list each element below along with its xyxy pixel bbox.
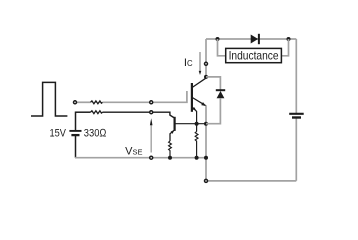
- right rail gray lower: [295, 118, 297, 181]
- collector rail gray: [205, 39, 207, 77]
- battery right long plate: [289, 113, 304, 115]
- transistor Q1 collector lead: [192, 78, 206, 87]
- diode D1 cathode bar: [258, 34, 260, 44]
- transistor Q1 emitter lead short: [192, 107, 196, 132]
- junction dot emitter rail: [204, 156, 208, 160]
- resistor RB2: [91, 111, 103, 114]
- node terminal circle input: [74, 101, 77, 104]
- Ic arrowhead: [199, 71, 202, 75]
- inductance box right connector: [281, 39, 288, 56]
- freewheel diode branch bottom wire gray: [206, 98, 220, 124]
- freewheel diode branch top wire gray: [206, 77, 220, 90]
- transistor Q1 emitter lead long: [192, 98, 206, 106]
- node terminal circle SE top: [150, 111, 153, 114]
- junction dot R2 base line: [195, 122, 199, 126]
- wire gray to transistor base stub: [103, 91, 187, 102]
- transistor Q2 bar: [174, 117, 176, 131]
- Ic arrow shaft: [199, 52, 201, 72]
- battery 15V long plate: [69, 130, 81, 132]
- pulse waveform input signal: [31, 82, 67, 116]
- junction dot load left: [216, 37, 220, 41]
- 15V battery left vertical wire: [75, 112, 77, 131]
- junction dot R2 bottom: [195, 156, 199, 160]
- node circle emitter bottom: [205, 179, 208, 182]
- emitter column gray: [205, 106, 207, 181]
- diode D2 triangle: [217, 91, 225, 98]
- VSE arrowhead: [150, 118, 153, 125]
- junction dot load right: [287, 37, 291, 41]
- wire second black from 15V loop: [76, 111, 91, 113]
- node circle collector terminal: [205, 62, 208, 65]
- transistor Q2 emitter arrow: [171, 130, 175, 134]
- junction dot emitter/diode: [204, 122, 208, 126]
- resistor R2: [195, 132, 198, 158]
- bottom rail 2 gray: [206, 180, 296, 182]
- inductance box left connector: [218, 39, 226, 56]
- resistor R3: [169, 141, 172, 158]
- VSE arrow shaft: [150, 124, 152, 153]
- svg-text:15V: 15V: [50, 128, 67, 140]
- svg-text:330Ω: 330Ω: [84, 128, 107, 140]
- transistor Q2 base lead: [175, 123, 206, 125]
- wire black to Q2 collector: [103, 112, 175, 118]
- transistor Q1 bar: [191, 83, 193, 112]
- junction dot collector: [204, 75, 208, 79]
- transistor Q1 emitter arrow long: [201, 102, 206, 106]
- svg-text:Inductance: Inductance: [229, 49, 279, 63]
- top rail gray: [206, 38, 296, 40]
- inductance box: [226, 48, 282, 62]
- bottom rail gray: [75, 157, 206, 159]
- node circle VSE bottom: [150, 156, 153, 159]
- wire top gray from node to base network: [77, 101, 91, 103]
- svg-text:VSE: VSE: [125, 146, 142, 158]
- battery 15V short plate: [71, 134, 79, 136]
- resistor RB1: [91, 101, 103, 104]
- node terminal circle B: [150, 101, 153, 104]
- battery right short plate: [292, 116, 301, 118]
- svg-text:IC: IC: [184, 57, 193, 69]
- junction dot R3 bottom: [168, 156, 172, 160]
- diode D2 cathode bar: [216, 89, 225, 91]
- diode D1 triangle: [251, 35, 258, 44]
- transistor Q1 emitter arrow short: [193, 107, 197, 111]
- transistor Q2 emitter: [170, 130, 174, 141]
- wire battery to bottom rail: [75, 135, 77, 158]
- right rail gray upper: [295, 39, 297, 113]
